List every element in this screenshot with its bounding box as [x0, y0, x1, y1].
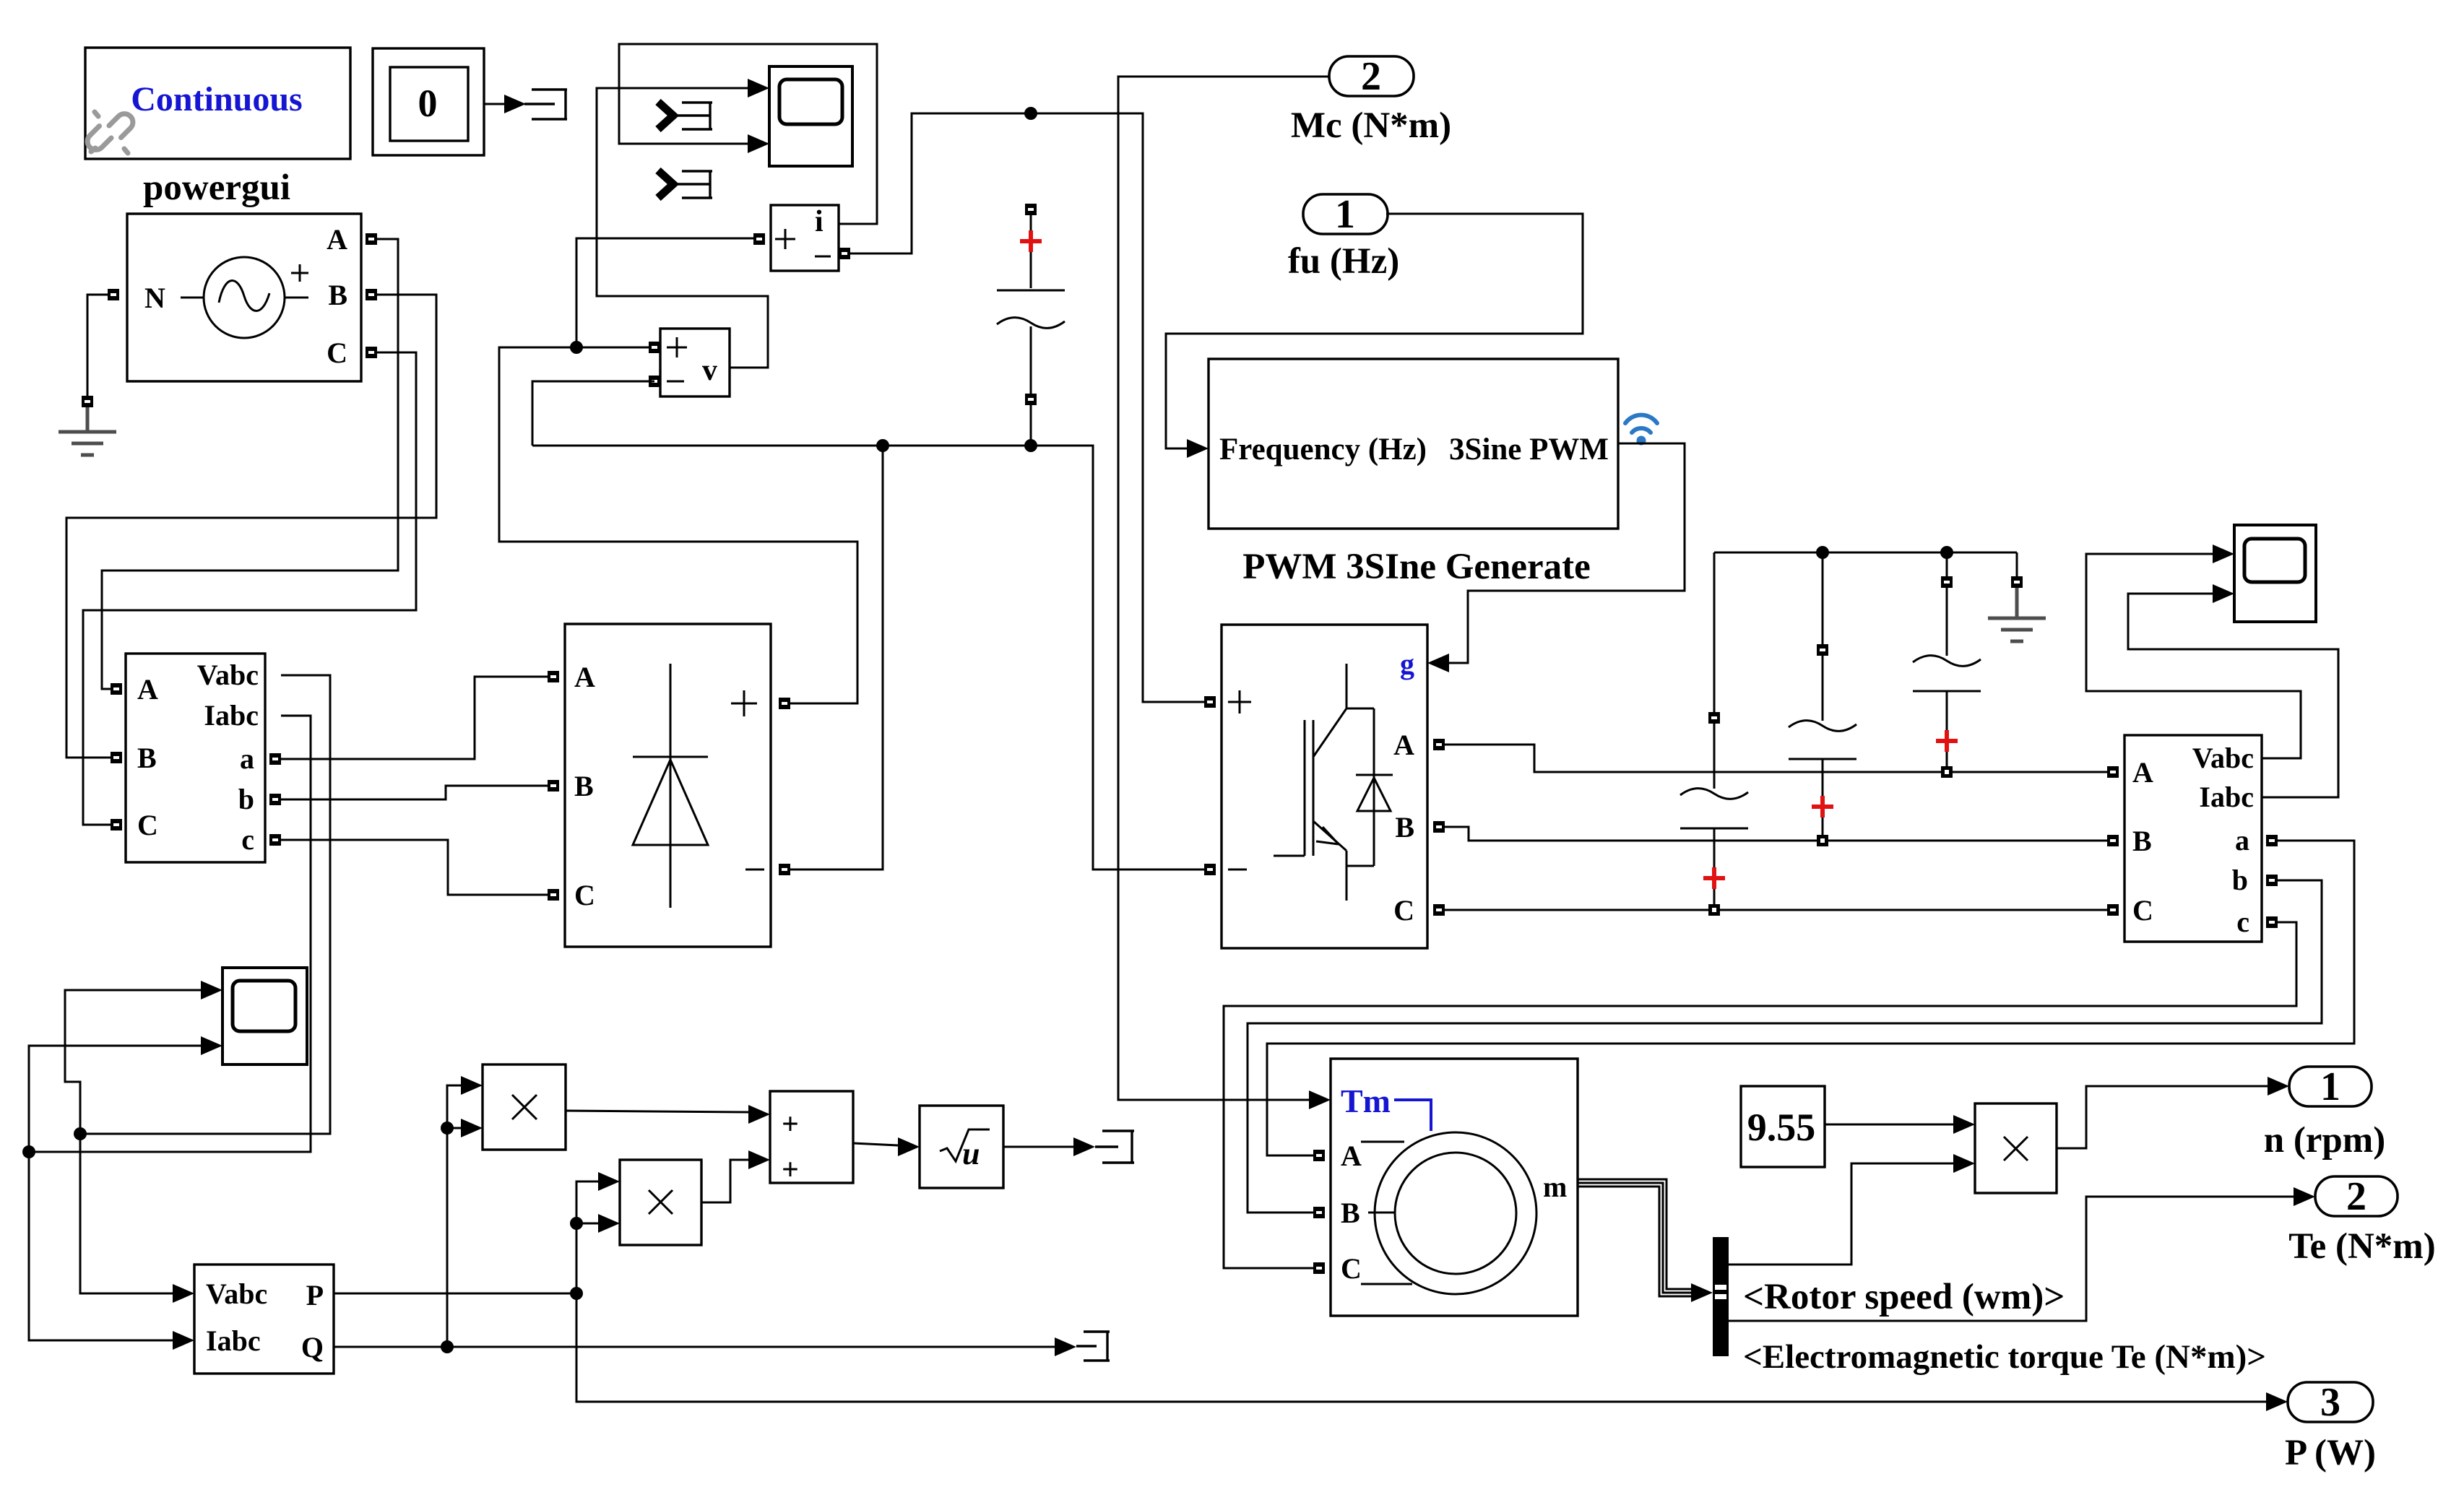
ground capacitor bus: [1988, 552, 2046, 641]
inverter (universal bridge IGBT): [1222, 625, 1427, 948]
PQ power measurement block: [194, 1265, 334, 1374]
capacitor DC link: [997, 204, 1065, 446]
powergui label: [143, 168, 290, 208]
label Te (N*m): [2288, 1226, 2436, 1267]
svg-text:N: N: [144, 282, 165, 314]
terminator Q: [1076, 1332, 1110, 1361]
svg-text:Q: Q: [301, 1331, 324, 1363]
svg-text:a: a: [2235, 824, 2249, 856]
wire VI2 Vabc to scope2 in1: [2086, 545, 2301, 758]
wire VI2 Iabc to scope2 in2: [2128, 584, 2338, 797]
label Rotor speed: [1743, 1277, 2065, 1317]
svg-text:v: v: [702, 354, 717, 387]
node V net junction: [74, 1127, 87, 1140]
svg-text:a: a: [240, 742, 254, 775]
inport 2 Mc: [1329, 54, 1414, 99]
node cap bus junction B: [1816, 546, 1829, 559]
svg-text:A: A: [137, 673, 158, 706]
outport 2 Te: [2315, 1174, 2398, 1219]
svg-text:A: A: [327, 223, 347, 256]
node Q squared junction: [441, 1122, 454, 1135]
multiplier3: [1975, 1103, 2057, 1193]
wire VI1 a to rectifier A: [281, 677, 548, 759]
svg-text:c: c: [241, 823, 254, 856]
wire i minus to DC+ top bus: [850, 113, 1031, 253]
multiplier2: [620, 1160, 701, 1245]
svg-text:0: 0: [418, 82, 438, 125]
wire bus selector wm to multiplier3: [1729, 1154, 1975, 1265]
svg-text:C: C: [1393, 894, 1414, 927]
svg-text:C: C: [1341, 1252, 1362, 1285]
wire DC+ bus to inverter plus: [1031, 113, 1204, 702]
node DC+ junction at v plus: [570, 341, 583, 354]
svg-text:Vabc: Vabc: [206, 1278, 267, 1310]
capacitor C phase: [1680, 552, 1748, 916]
svg-text:Iabc: Iabc: [2199, 781, 2254, 813]
svg-text:2: 2: [2346, 1174, 2366, 1219]
outport 3 P(W): [2288, 1380, 2373, 1425]
svg-text:C: C: [327, 337, 347, 369]
svg-text:A: A: [1393, 729, 1414, 761]
wire VI1 c to rectifier C: [281, 840, 548, 895]
rectifier (universal diode bridge): [548, 624, 790, 947]
bus selector: [1713, 1237, 1729, 1356]
svg-text:C: C: [2132, 894, 2153, 927]
svg-text:A: A: [574, 661, 595, 693]
wire VI2 c to motor C wrap: [1224, 922, 2296, 1268]
svg-text:n (rpm): n (rpm): [2264, 1120, 2386, 1161]
scope DC (Vdc,Idc): [769, 66, 852, 166]
PWM 3Sine generator block: [1209, 359, 1618, 529]
wire source B to VI1 B: [66, 295, 436, 758]
svg-text:Mc (N*m): Mc (N*m): [1291, 105, 1451, 146]
svg-text:Vabc: Vabc: [197, 659, 259, 691]
svg-text:A: A: [1341, 1140, 1362, 1172]
wire 9.55 to multiplier3: [1825, 1115, 1975, 1134]
wire v output to scope in1: [597, 79, 769, 368]
constant block 0: [373, 48, 484, 155]
wire rectifier + to v/i node (DC plus riser): [499, 347, 857, 703]
svg-text:1: 1: [2320, 1064, 2340, 1109]
sqrt block: [920, 1106, 1003, 1188]
wire constant0 to terminator: [484, 95, 526, 113]
wire v minus to DC minus bus: [532, 381, 654, 446]
inverter diode symbol: [1346, 708, 1393, 866]
label PWM 3SIne Generate: [1242, 547, 1591, 587]
svg-text:Iabc: Iabc: [206, 1324, 261, 1357]
wire fu to PWM input: [1166, 214, 1583, 458]
wire Q output: [334, 1337, 1076, 1356]
svg-text:B: B: [137, 742, 157, 774]
node DC+ bus junction: [1024, 107, 1037, 120]
svg-text:fu (Hz): fu (Hz): [1288, 241, 1399, 282]
svg-text:Iabc: Iabc: [204, 699, 259, 732]
capacitor A phase: [1913, 552, 1981, 778]
svg-text:Vabc: Vabc: [2192, 742, 2254, 774]
wire PWM output to inverter g: [1427, 443, 1685, 672]
wire source C to VI1 C: [83, 352, 416, 825]
svg-text:B: B: [1341, 1197, 1360, 1229]
node DC- junction 2: [1024, 439, 1037, 452]
svg-text:PWM 3SIne Generate: PWM 3SIne Generate: [1242, 547, 1591, 587]
V-I measurement block 2: [2107, 735, 2278, 942]
svg-text:A: A: [2132, 756, 2153, 789]
wire multiplier1 to sum: [566, 1105, 770, 1124]
from tag 1: [658, 102, 712, 129]
wire bus selector Te to outport Te: [1729, 1187, 2315, 1321]
multiplier1: [483, 1064, 566, 1150]
terminator sqrt: [1095, 1131, 1134, 1163]
svg-text:C: C: [137, 809, 158, 841]
terminator T_const0: [524, 90, 567, 119]
svg-text:3: 3: [2320, 1380, 2340, 1425]
node P junction: [570, 1287, 583, 1300]
node Q junction: [441, 1340, 454, 1353]
wire inverter A phase line: [1445, 745, 2107, 772]
wire inverter B phase line: [1445, 827, 2107, 841]
sum block: [770, 1091, 853, 1187]
asynchronous machine (motor): [1313, 1059, 1578, 1316]
wire DC- bus: [532, 446, 1204, 869]
wire node to v plus input: [576, 347, 649, 349]
label P (W): [2285, 1433, 2376, 1473]
from tag 2: [658, 170, 712, 198]
wire source A to VI1 A: [102, 239, 398, 689]
svg-text:Frequency (Hz): Frequency (Hz): [1219, 433, 1427, 467]
wireless icon: [1625, 415, 1657, 446]
powergui block: [85, 48, 350, 159]
svg-text:P: P: [306, 1279, 324, 1311]
wire Q to multiplier1 inputs: [447, 1076, 483, 1347]
wire rectifier minus to DC- bus: [790, 446, 883, 869]
wire node to i plus input: [576, 238, 759, 347]
svg-text:9.55: 9.55: [1747, 1106, 1816, 1149]
inport 1 fu: [1303, 192, 1388, 237]
wire P to outport P(W): [576, 1293, 2288, 1411]
inverter ports: [1204, 696, 1445, 916]
wire VI1 Vabc net: [65, 675, 330, 1303]
capacitor B phase: [1789, 552, 1856, 846]
svg-text:b: b: [238, 783, 254, 815]
wire Mc to motor Tm: [1118, 77, 1331, 1109]
capacitor bus top: [1714, 552, 2017, 554]
scope 2: [2234, 525, 2316, 622]
wire P to multiplier2 inputs: [576, 1172, 620, 1293]
label n (rpm): [2264, 1120, 2386, 1161]
svg-text:<Rotor speed (wm)>: <Rotor speed (wm)>: [1743, 1277, 2065, 1317]
svg-text:Tm: Tm: [1341, 1083, 1391, 1119]
node cap bus junction A: [1940, 546, 1953, 559]
label Mc (N*m): [1291, 105, 1451, 146]
powergui broken-link icon: [87, 112, 133, 153]
svg-text:+: +: [782, 1153, 799, 1187]
svg-text:2: 2: [1361, 54, 1381, 99]
svg-text:3Sine PWM: 3Sine PWM: [1449, 433, 1609, 467]
svg-text:P (W): P (W): [2285, 1433, 2376, 1473]
svg-text:Te (N*m): Te (N*m): [2288, 1226, 2436, 1267]
scope 1 (Vabc/Iabc grid): [222, 968, 307, 1064]
wire VI1 Iabc net: [29, 716, 311, 1350]
svg-text:B: B: [574, 770, 594, 802]
outport 1 n(rpm): [2289, 1064, 2372, 1109]
label Electromagnetic torque: [1743, 1338, 2266, 1376]
svg-text:powergui: powergui: [143, 168, 290, 208]
svg-text:u: u: [962, 1136, 980, 1171]
current measurement block i: [753, 205, 850, 271]
svg-text:+: +: [782, 1108, 799, 1141]
wire motor m bus to bus selector: [1578, 1179, 1713, 1302]
node P squared junction: [570, 1217, 583, 1230]
three-phase source block: [108, 214, 377, 381]
wire multiplier3 to outport n: [2057, 1077, 2289, 1148]
wire multiplier2 to sum: [701, 1150, 770, 1202]
svg-text:Continuous: Continuous: [131, 80, 302, 118]
svg-text:<Electromagnetic torque Te (N*: <Electromagnetic torque Te (N*m)>: [1743, 1338, 2266, 1376]
V-I measurement block 1: [111, 654, 281, 862]
inverter IGBT symbol: [1274, 664, 1346, 901]
svg-text:i: i: [815, 205, 824, 238]
node I net junction: [22, 1145, 35, 1158]
svg-text:B: B: [328, 279, 347, 311]
node DC- junction 1: [876, 439, 889, 452]
wire source N to ground: [87, 295, 108, 396]
wire inverter C phase line: [1445, 909, 2107, 911]
svg-text:c: c: [2236, 906, 2249, 938]
constant 9.55: [1741, 1086, 1825, 1167]
ground G1: [59, 396, 116, 455]
svg-text:B: B: [1395, 811, 1414, 843]
wire P output: [334, 1293, 576, 1295]
wire i signal output to scope in2: [619, 44, 877, 224]
label fu (Hz): [1288, 241, 1399, 282]
svg-text:m: m: [1543, 1171, 1567, 1203]
voltage measurement block v: [649, 329, 730, 396]
svg-text:B: B: [2132, 825, 2152, 857]
wire sqrt to terminator: [1003, 1137, 1095, 1156]
wire VI2 a to motor A wrap: [1267, 841, 2354, 1155]
wire sum to sqrt: [853, 1137, 920, 1156]
wire VI2 b to motor B wrap: [1248, 880, 2322, 1213]
svg-text:b: b: [2232, 864, 2248, 896]
svg-text:g: g: [1400, 648, 1414, 680]
wire VI1 b to rectifier B: [281, 786, 548, 799]
svg-text:C: C: [574, 879, 595, 911]
svg-text:1: 1: [1335, 192, 1355, 237]
